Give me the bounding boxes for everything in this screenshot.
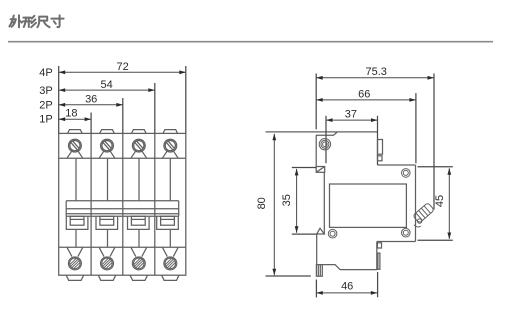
front view: pole divider 3 [154, 133, 156, 275]
side view: front face tab [378, 140, 383, 155]
front view pole 4: toggle handle [157, 216, 179, 229]
front view pole 4: bottom wire funnel [162, 247, 167, 256]
side view: central window recess [330, 184, 407, 227]
dimension 45 [448, 168, 450, 239]
side view: bottom profile step [322, 242, 377, 270]
front view pole 3: bottom mounting tab [130, 275, 147, 280]
front view: lower separator line [59, 246, 186, 248]
front view pole 4: bottom mounting tab [162, 275, 179, 280]
side: 45-dim extension lines [418, 166, 453, 168]
front view: upper separator line [59, 157, 186, 159]
front view pole 2: lower channel line [107, 229, 109, 247]
svg-text:54: 54 [100, 79, 112, 91]
front view pole 3: bottom wire funnel [131, 247, 136, 256]
svg-text:35: 35 [281, 194, 293, 206]
front view: toggle bar band [65, 201, 67, 217]
svg-text:45: 45 [434, 195, 446, 207]
front view pole 3: center channel line [138, 158, 140, 201]
side view: front shoulder edge [378, 164, 416, 166]
front view pole 2: toggle handle [96, 216, 118, 229]
front view pole 2: bottom terminal screw [101, 257, 114, 270]
svg-text:46: 46 [341, 280, 353, 292]
svg-text:1P: 1P [39, 113, 52, 125]
side: extension line right 66 [415, 93, 417, 163]
side view: DIN rail seat edge [323, 172, 325, 234]
side view: toggle lever [412, 203, 435, 225]
front view pole 4: lower channel line [169, 229, 171, 247]
dimension 66 [316, 99, 416, 101]
dimension 46 [316, 292, 377, 294]
front view pole 3: top terminal screw [132, 139, 145, 152]
front view pole 1: top terminal screw [69, 139, 82, 152]
front view pole 3: top mounting tab [132, 130, 147, 134]
svg-text:2P: 2P [39, 99, 52, 111]
front view: pole divider 2 [122, 133, 124, 275]
side view: small square notch under bottom face [377, 243, 381, 248]
svg-text:75.3: 75.3 [365, 66, 386, 78]
front view pole 1: top mounting tab [68, 130, 83, 134]
side view: DIN clip lower wedge [317, 228, 325, 234]
side view: bottom face of terminal block [377, 241, 416, 243]
svg-text:37: 37 [345, 108, 357, 120]
title 外形尺寸 (Outline Dimensions), hand-drawn glyph strokes [9, 15, 63, 27]
dimension 35 (DIN rail span) [296, 169, 298, 233]
side view: front face small square [378, 156, 383, 161]
side view: bottom terminal slot bar [378, 253, 380, 269]
front view pole 1: bottom wire funnel [67, 247, 72, 256]
side view: left section top edge with chamfer [316, 132, 337, 135]
svg-text:4P: 4P [39, 67, 52, 79]
side view: DIN clip top hook (hatched) [316, 167, 325, 173]
front view pole 4: center channel line [169, 158, 171, 201]
dimension 37 [326, 119, 378, 121]
front view pole 1: top wire funnel [67, 151, 72, 158]
side: extension line left (75.3/66) [315, 74, 317, 130]
front view pole 1: toggle handle [66, 216, 88, 229]
side: 80-dim bottom extension line [266, 275, 311, 277]
side view: lower left edge [316, 234, 318, 265]
front view pole 2: center channel line [107, 158, 109, 201]
side view: screw top-right [402, 169, 411, 178]
side: 46-dim extension lines [315, 280, 317, 298]
svg-text:3P: 3P [39, 85, 52, 97]
svg-text:66: 66 [358, 88, 370, 100]
dimension 18 (1P width) [59, 118, 91, 120]
side view: bottom clip foot (hatched) [316, 265, 322, 277]
front view pole 4: top terminal screw [164, 139, 177, 152]
svg-text:36: 36 [85, 93, 97, 105]
front view pole 2: top terminal screw [101, 139, 114, 152]
side view: inner vertical line (37-dim left extension) [325, 116, 327, 164]
front view pole 2: top wire funnel [99, 151, 104, 158]
dimension 54 (3P width) [59, 89, 155, 91]
front view pole 1: bottom terminal screw [68, 257, 81, 270]
side: extension line right 75.3 (lever tip) [433, 74, 435, 210]
title underline rule [8, 41, 493, 43]
front view pole 1: bottom mounting tab [66, 275, 83, 280]
dimension 72 (4P overall width) [59, 71, 186, 73]
svg-text:72: 72 [116, 61, 128, 73]
side view: front step vertical (also 37-dim right extension) [377, 116, 379, 165]
front view pole 2: top mounting tab [100, 130, 115, 134]
front view pole 2: bottom wire funnel [99, 247, 104, 256]
svg-text:80: 80 [256, 197, 268, 209]
dimension 36 (2P width) [59, 104, 123, 106]
side view: screw bottom-right [402, 228, 411, 237]
side view: screw bottom-left [328, 229, 337, 238]
front view pole 4: top mounting tab [163, 130, 178, 134]
side view: screw top-left [319, 139, 330, 150]
front view: pole divider 1 [90, 133, 92, 275]
side view: top face and 80-dim top extension line [266, 131, 378, 133]
side view: upper left edge [315, 135, 317, 166]
front view: breaker body outline [59, 133, 186, 275]
front view: extension lines [58, 66, 60, 133]
front view pole 3: bottom terminal screw [132, 257, 145, 270]
side: 35-dim extension lines [292, 167, 316, 169]
front view pole 2: bottom mounting tab [98, 275, 115, 280]
front view pole 1: center channel line [75, 158, 77, 201]
svg-text:18: 18 [65, 108, 77, 120]
dimension 75.3 (overall depth) [316, 77, 434, 79]
dimension 80 (height) [273, 134, 275, 275]
front view pole 3: top wire funnel [131, 151, 136, 158]
front view pole 1: lower channel line [75, 229, 77, 247]
front view pole 3: toggle handle [128, 216, 150, 229]
front view pole 4: top wire funnel [162, 151, 167, 158]
front view pole 4: bottom terminal screw [164, 257, 177, 270]
side view: right edge [415, 165, 417, 242]
front view pole 3: lower channel line [138, 229, 140, 247]
